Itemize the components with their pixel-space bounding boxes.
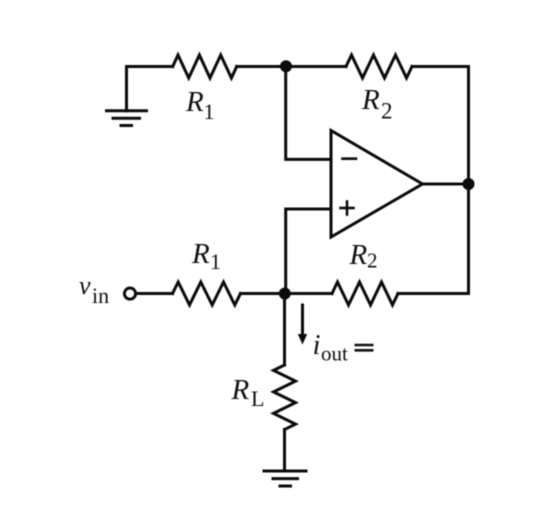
svg-text:out: out bbox=[321, 342, 348, 366]
svg-text:R: R bbox=[361, 84, 380, 116]
svg-text:L: L bbox=[251, 386, 264, 411]
pin label: non-inverting input (+) bbox=[341, 202, 354, 215]
node C (output junction) bbox=[463, 178, 475, 190]
pin label: inverting input (-) bbox=[343, 157, 357, 160]
svg-text:R: R bbox=[231, 374, 250, 406]
svg-text:1: 1 bbox=[210, 249, 221, 274]
node A (top junction) bbox=[280, 60, 292, 72]
wire: top rail from ground branch to R1 bbox=[127, 65, 173, 68]
wire: bottom rail from node B to R2 bbox=[285, 292, 333, 295]
svg-text:2: 2 bbox=[367, 249, 378, 273]
wire: node B down to RL bbox=[283, 294, 286, 366]
label R2 (top resistor value) bbox=[361, 84, 393, 124]
wire: top rail from R1 to node A bbox=[237, 65, 286, 68]
wire: RL to ground bbox=[283, 430, 286, 472]
wire: bottom rail from R1 to node B bbox=[241, 292, 285, 295]
svg-text:R: R bbox=[185, 86, 204, 118]
wire: op-amp output to node C bbox=[423, 183, 469, 186]
wire: from vin terminal to R1 (bottom) bbox=[136, 292, 173, 295]
label R2 (bottom resistor value) bbox=[349, 239, 378, 273]
wire: top rail from node A to R2 bbox=[286, 65, 346, 68]
node B (bottom junction) bbox=[279, 288, 291, 300]
terminal: vin input circle bbox=[124, 288, 135, 299]
op-amp U1 bbox=[331, 131, 423, 238]
label R1 (bottom resistor value) bbox=[191, 238, 221, 274]
label iout = (output current) bbox=[313, 329, 374, 366]
label RL (load resistor value) bbox=[231, 374, 265, 411]
svg-text:R: R bbox=[191, 238, 210, 270]
wire: right vertical rail bbox=[467, 67, 470, 294]
wire: top-left vertical from top rail to ground bbox=[125, 67, 128, 111]
wire: bottom rail from R2 to right rail bbox=[398, 292, 469, 295]
wire: non-inverting input stub (vertical from node B) bbox=[286, 209, 331, 294]
label R1 (top resistor value) bbox=[185, 86, 215, 124]
svg-text:in: in bbox=[92, 283, 109, 308]
resistor RL (vertical) bbox=[274, 365, 296, 430]
svg-text:v: v bbox=[79, 271, 91, 300]
svg-text:2: 2 bbox=[381, 99, 393, 124]
resistor R2 (top) bbox=[346, 55, 412, 78]
svg-text:i: i bbox=[313, 329, 321, 361]
svg-text:R: R bbox=[349, 239, 368, 271]
wire: inverting input stub (vertical from node A) bbox=[286, 67, 331, 160]
ground (top-left) bbox=[107, 111, 147, 126]
ground (bottom) bbox=[264, 471, 306, 486]
resistor R1 (top) bbox=[173, 55, 237, 78]
label vin (input voltage) bbox=[79, 271, 109, 308]
resistor R2 (bottom) bbox=[332, 282, 398, 305]
wire: top rail from R2 to right rail bbox=[412, 65, 469, 68]
resistor R1 (bottom) bbox=[173, 282, 241, 305]
svg-text:1: 1 bbox=[204, 99, 215, 124]
current arrow iout bbox=[298, 305, 307, 345]
